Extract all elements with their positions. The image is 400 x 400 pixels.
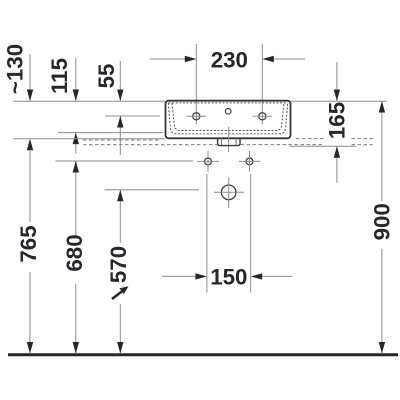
dimension ~130 stub: [27, 54, 33, 101]
dimension 165 feature line: [290, 145, 356, 147]
mounting hole right: [239, 151, 261, 172]
svg-text:165: 165: [325, 102, 350, 139]
basin bowl outer dashed contour: [168, 103, 287, 134]
dimension 115 stub: [73, 58, 79, 101]
svg-text:570: 570: [106, 246, 131, 283]
dimension 115 bottom arrow: [73, 133, 79, 154]
basin bowl inner dashed contour: [172, 103, 284, 131]
mounting hole left: [198, 151, 220, 172]
dimension 150 extension line right: [250, 174, 252, 293]
dimension 55 stub: [117, 61, 123, 101]
basin underside extension line: [14, 138, 166, 140]
svg-text:765: 765: [16, 225, 41, 262]
drain centerline: [228, 127, 230, 152]
basin inner rim dashed line: [169, 102, 288, 104]
dimension 150 extension line left: [206, 174, 208, 293]
dimension 230 extension line right: [261, 44, 263, 124]
dimension 680 line: [73, 161, 79, 354]
dimension 900 line: [379, 101, 385, 354]
dimension 570 line: [117, 190, 123, 354]
dimension 765 line: [27, 139, 33, 354]
basin outline: [166, 101, 291, 139]
faucet hole left: [187, 113, 206, 120]
dashed wall line lower: [83, 144, 374, 146]
dashed wall line upper: [83, 139, 374, 140]
drain box: [218, 138, 240, 145]
dimension 680 feature line: [56, 160, 194, 162]
dimension 570 feature line: [105, 189, 200, 191]
overflow hole: [225, 109, 231, 115]
svg-text:115: 115: [47, 58, 72, 94]
dimension 165 bottom arrow: [334, 146, 340, 183]
dimension 150 left arrow: [162, 273, 207, 279]
dimension 115 feature line: [58, 132, 163, 134]
svg-text:~130: ~130: [3, 44, 28, 94]
dimension 230 left arrow: [150, 56, 196, 62]
svg-text:55: 55: [94, 64, 119, 89]
dimension 55 bottom arrow: [117, 116, 123, 155]
wire rim-line-right: [291, 100, 387, 102]
svg-text:230: 230: [211, 48, 248, 73]
faucet hole right: [253, 113, 272, 120]
dimension 230 extension line left: [195, 44, 197, 124]
dimension 230 right arrow: [262, 56, 305, 62]
dimension 165 top stub: [334, 62, 340, 101]
svg-text:680: 680: [62, 234, 87, 271]
siphon circle: [214, 177, 244, 208]
svg-text:900: 900: [370, 203, 395, 240]
leader arrow 570: [112, 286, 129, 299]
floor line: [8, 353, 398, 356]
dimension 55 feature line: [105, 115, 160, 117]
dimension 150 right arrow: [251, 273, 293, 279]
svg-text:150: 150: [210, 264, 247, 289]
wire rim-line-left: [14, 100, 166, 102]
